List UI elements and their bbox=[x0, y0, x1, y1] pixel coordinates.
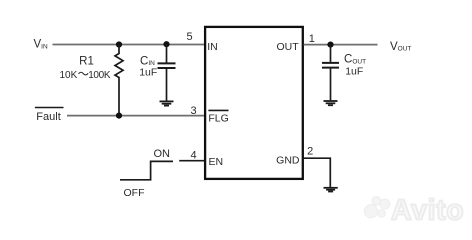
ground (CIN) bbox=[160, 100, 174, 102]
EN waveform (OFF/ON step) bbox=[120, 161, 173, 179]
svg-text:2: 2 bbox=[307, 146, 313, 158]
svg-text:OFF: OFF bbox=[124, 187, 145, 199]
svg-text:ON: ON bbox=[154, 148, 171, 160]
node Fault label (with overline) bbox=[35, 107, 64, 109]
op-amp U1 (regulator IC body) bbox=[205, 27, 303, 179]
wire VIN to IN pin bbox=[53, 44, 205, 46]
svg-text:100K: 100K bbox=[88, 70, 111, 81]
svg-text:1uF: 1uF bbox=[345, 66, 363, 78]
capacitor COUT bbox=[330, 45, 332, 63]
svg-text:5: 5 bbox=[186, 31, 192, 43]
svg-text:OUT: OUT bbox=[277, 41, 300, 53]
svg-text:1: 1 bbox=[309, 33, 315, 45]
junction R1 top bbox=[116, 41, 122, 47]
junction Fault / R1 bottom bbox=[116, 113, 122, 119]
svg-text:R1: R1 bbox=[79, 55, 94, 67]
wire GND pin to ground bbox=[304, 158, 331, 187]
svg-text:FLG: FLG bbox=[208, 112, 228, 124]
junction CIN top bbox=[163, 41, 169, 47]
ground (COUT) bbox=[324, 100, 338, 102]
capacitor CIN bbox=[166, 44, 168, 62]
svg-text:1uF: 1uF bbox=[139, 67, 157, 79]
ground (GND pin) bbox=[324, 187, 338, 189]
wire OUT to VOUT bbox=[304, 44, 378, 46]
junction COUT top bbox=[327, 42, 333, 48]
svg-text:IN: IN bbox=[207, 41, 218, 53]
svg-text:Fault: Fault bbox=[36, 111, 60, 123]
svg-text:EN: EN bbox=[209, 156, 224, 168]
wire waveform to EN pin bbox=[179, 160, 204, 162]
wire Fault to FLG pin bbox=[67, 115, 204, 117]
svg-text:Avito: Avito bbox=[391, 195, 464, 227]
svg-text:GND: GND bbox=[276, 154, 300, 166]
watermark Avito logo circles bbox=[364, 196, 389, 217]
svg-text:10K: 10K bbox=[60, 70, 78, 81]
pin name FLG (with overline) bbox=[208, 109, 228, 111]
resistor R1 bbox=[115, 45, 123, 116]
